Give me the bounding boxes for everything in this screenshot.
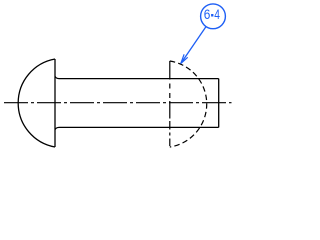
fillet bottom <box>55 127 59 129</box>
phantom head flat face solid upper segment <box>169 61 171 80</box>
shank bottom line <box>59 126 219 128</box>
leader arrowhead <box>181 54 188 63</box>
svg-text:4: 4 <box>214 7 220 22</box>
rivet head flat face <box>54 59 56 147</box>
shank top line <box>59 78 219 80</box>
svg-text:6: 6 <box>204 7 211 22</box>
shank right end edge <box>218 79 220 128</box>
rivet head dome arc <box>18 59 55 147</box>
phantom head flat face hidden dashes <box>169 84 171 147</box>
centerline (dash-dot axis) <box>4 102 232 104</box>
balloon circle 6.4 <box>201 4 226 29</box>
phantom formed-head dashed arc <box>170 61 207 147</box>
leader line <box>181 27 206 64</box>
fillet top <box>55 76 59 78</box>
